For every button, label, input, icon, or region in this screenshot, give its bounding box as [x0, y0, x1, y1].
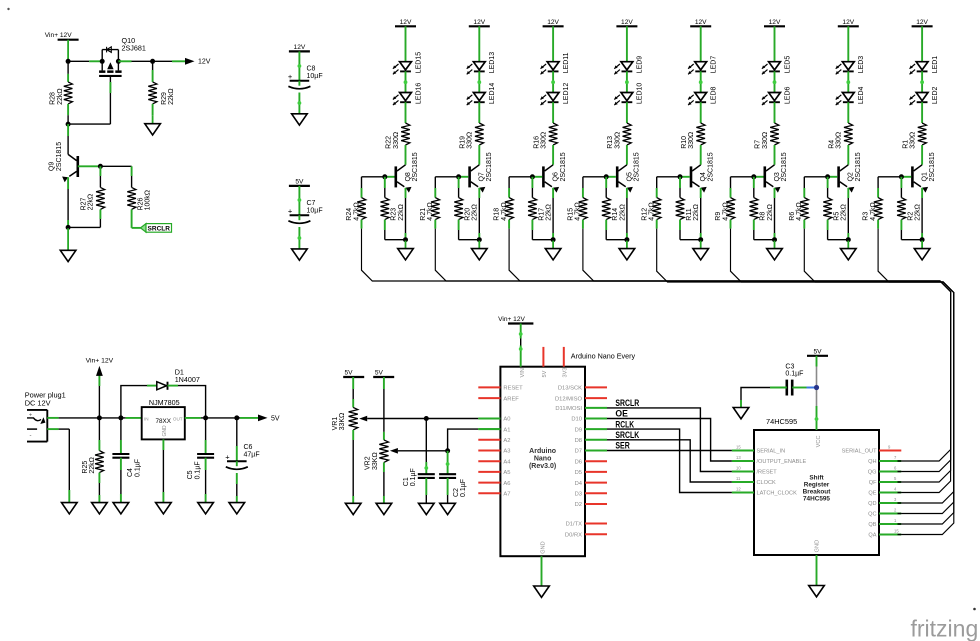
svg-text:Q7: Q7	[479, 172, 486, 181]
wire	[552, 102, 554, 123]
wire	[206, 417, 237, 419]
wire	[447, 478, 449, 503]
LED LED12	[541, 83, 570, 106]
dot	[7, 8, 9, 10]
svg-text:22kΩ: 22kΩ	[841, 204, 848, 221]
svg-text:+: +	[288, 206, 293, 215]
ground	[841, 241, 857, 260]
resistor R23	[381, 198, 405, 221]
svg-text:22kΩ: 22kΩ	[472, 204, 479, 221]
svg-text:LED15: LED15	[415, 52, 422, 74]
resistor R21	[420, 198, 440, 221]
wire	[508, 177, 510, 198]
svg-text:12V: 12V	[400, 19, 412, 26]
pin D7	[575, 449, 607, 455]
power 12V col1	[395, 19, 416, 27]
wire	[804, 229, 954, 524]
ground	[419, 503, 435, 514]
wire	[731, 176, 764, 178]
svg-text:33KΩ: 33KΩ	[339, 413, 346, 431]
wire	[877, 220, 879, 229]
diode D1	[157, 367, 200, 390]
wire	[68, 77, 110, 124]
svg-text:C8: C8	[307, 66, 316, 73]
node	[920, 237, 925, 242]
ground	[809, 586, 825, 597]
resistor R27	[81, 187, 105, 210]
power 5V	[343, 370, 364, 378]
svg-text:Vin+ 12V: Vin+ 12V	[498, 316, 525, 323]
svg-text:47µF: 47µF	[244, 451, 260, 458]
net label RCLK	[615, 419, 634, 430]
svg-text:78XX: 78XX	[155, 418, 171, 425]
pin D11/MOSI	[555, 406, 607, 412]
wire	[67, 124, 69, 154]
svg-text:2SC1815: 2SC1815	[56, 142, 63, 171]
regulator NJM7805	[142, 398, 185, 439]
svg-text:GND: GND	[815, 540, 821, 552]
svg-text:74HC595: 74HC595	[803, 496, 830, 503]
node	[150, 59, 155, 64]
wire	[700, 188, 702, 240]
svg-text:330Ω: 330Ω	[910, 132, 917, 149]
node	[477, 237, 482, 242]
node	[604, 174, 609, 179]
svg-text:LED10: LED10	[637, 83, 644, 105]
wire	[384, 177, 386, 198]
wire	[679, 177, 681, 198]
svg-text:SRCLR: SRCLR	[615, 398, 639, 409]
IC U-Arduino Nano (Rev3.0)	[500, 352, 635, 557]
svg-text:SERIAL_OUT: SERIAL_OUT	[842, 449, 877, 455]
power 5V	[807, 348, 828, 356]
svg-text:R21: R21	[420, 208, 427, 221]
svg-text:VIN: VIN	[520, 368, 526, 377]
svg-text:2SC1815: 2SC1815	[560, 152, 567, 181]
wire	[803, 177, 805, 198]
node	[551, 237, 556, 242]
svg-text:5V: 5V	[813, 348, 822, 355]
svg-text:10µF: 10µF	[307, 207, 323, 214]
node	[98, 164, 103, 169]
svg-text:2SC1815: 2SC1815	[855, 152, 862, 181]
ground	[534, 586, 550, 597]
svg-text:A4: A4	[503, 459, 511, 465]
LED LED5	[762, 56, 791, 75]
wire	[626, 188, 628, 240]
wire	[509, 176, 542, 178]
pin A7	[478, 492, 510, 498]
svg-text:330Ω: 330Ω	[393, 132, 400, 149]
net label OE	[615, 409, 628, 420]
transistor Q6	[542, 152, 567, 192]
wire	[541, 556, 543, 586]
wire	[878, 176, 911, 178]
svg-text:2SC1815: 2SC1815	[707, 152, 714, 181]
svg-text:R4: R4	[829, 140, 836, 149]
pin RESET	[478, 386, 523, 392]
svg-text:SRCLK: SRCLK	[615, 430, 639, 441]
svg-text:330Ω: 330Ω	[762, 132, 769, 149]
svg-text:R12: R12	[641, 208, 648, 221]
wire	[120, 458, 122, 503]
wire	[298, 186, 302, 215]
svg-text:0.1µF: 0.1µF	[410, 468, 417, 486]
ground	[440, 503, 456, 514]
wire	[236, 418, 238, 461]
ground	[345, 503, 361, 514]
svg-text:4.7kΩ: 4.7kΩ	[427, 202, 434, 220]
svg-text:4.7kΩ: 4.7kΩ	[870, 202, 877, 220]
wire	[774, 102, 776, 123]
svg-text:22kΩ: 22kΩ	[88, 194, 95, 211]
wire	[774, 145, 776, 165]
wire	[478, 102, 480, 123]
svg-text:D10: D10	[571, 417, 582, 423]
svg-text:Q8: Q8	[405, 172, 412, 181]
LED LED11	[541, 52, 570, 74]
wire	[582, 220, 584, 229]
svg-text:GND: GND	[162, 425, 168, 437]
power plug1 label	[25, 391, 66, 408]
ground	[62, 503, 78, 514]
LED LED10	[614, 83, 643, 106]
svg-text:LED6: LED6	[784, 86, 791, 104]
potentiometer VR1	[332, 407, 367, 430]
resistor R11	[676, 198, 700, 221]
svg-text:Q9: Q9	[49, 162, 56, 171]
pin QA	[868, 528, 901, 538]
svg-text:C6: C6	[244, 444, 253, 451]
wire	[236, 473, 238, 503]
wire	[78, 165, 132, 167]
wire	[730, 177, 732, 198]
wire	[656, 220, 658, 229]
svg-text:R9: R9	[715, 212, 722, 221]
svg-text:12V: 12V	[695, 19, 707, 26]
wire	[152, 104, 154, 116]
ground	[229, 503, 245, 514]
svg-text:C5: C5	[187, 470, 194, 479]
wire	[774, 26, 776, 61]
potentiometer VR2	[365, 440, 398, 470]
power 12V arrow	[185, 58, 211, 66]
LED LED6	[762, 86, 791, 105]
wire	[532, 220, 553, 240]
wire	[152, 61, 154, 82]
wire	[383, 377, 385, 440]
svg-text:D6: D6	[575, 459, 582, 465]
power 5V	[289, 178, 310, 186]
svg-text:12V: 12V	[916, 19, 928, 26]
capacitor C3	[785, 363, 803, 395]
power Vin+ 12V arrow	[86, 358, 114, 376]
svg-text:A5: A5	[503, 470, 510, 476]
svg-text:Vin+ 12V: Vin+ 12V	[45, 32, 72, 39]
svg-text:LED16: LED16	[415, 83, 422, 105]
resistor R10	[681, 123, 705, 149]
wire	[900, 177, 902, 198]
wire	[699, 71, 703, 92]
resistor R3	[863, 198, 883, 221]
pin SERIAL_OUT	[842, 444, 902, 454]
wire	[99, 417, 121, 419]
wire	[920, 71, 924, 92]
svg-text:100kΩ: 100kΩ	[145, 190, 152, 210]
svg-text:Q3: Q3	[774, 172, 781, 181]
wire	[131, 166, 133, 187]
svg-text:Arduino: Arduino	[529, 448, 556, 455]
pin /OUTPUT_ENABLE	[732, 455, 807, 465]
power 12V col6	[764, 19, 785, 27]
resistor R25	[82, 451, 104, 474]
wire	[921, 26, 923, 61]
wire	[847, 26, 849, 61]
resistor R17	[528, 198, 552, 221]
svg-text:R7: R7	[755, 140, 762, 149]
wire	[605, 177, 607, 198]
node	[118, 415, 123, 420]
wire	[741, 388, 787, 408]
svg-text:C1: C1	[403, 477, 410, 486]
svg-text:Vin+ 12V: Vin+ 12V	[86, 358, 114, 365]
svg-text:(Rev3.0): (Rev3.0)	[529, 463, 556, 470]
svg-text:4.7kΩ: 4.7kΩ	[722, 202, 729, 220]
wire	[67, 177, 69, 227]
svg-text:12V: 12V	[294, 44, 306, 51]
svg-text:12V: 12V	[769, 19, 781, 26]
svg-text:R18: R18	[494, 208, 501, 221]
fritzing logo	[911, 616, 979, 641]
wire	[478, 26, 480, 61]
wire	[153, 60, 186, 62]
dot	[973, 608, 976, 611]
wire	[816, 555, 818, 586]
pin QF	[869, 476, 901, 486]
wire RCLK	[607, 429, 732, 492]
wire	[434, 220, 436, 229]
pin A0	[478, 417, 510, 423]
svg-text:3V3: 3V3	[562, 368, 568, 378]
svg-text:13: 13	[736, 455, 741, 460]
node	[825, 174, 830, 179]
svg-text:DC 12V: DC 12V	[25, 398, 51, 407]
pin A6	[478, 481, 510, 487]
wire	[298, 93, 302, 114]
wire	[67, 104, 69, 124]
svg-text:22kΩ: 22kΩ	[915, 204, 922, 221]
svg-text:R20: R20	[465, 208, 472, 221]
svg-text:2SC1815: 2SC1815	[634, 152, 641, 181]
svg-text:D8: D8	[575, 438, 582, 444]
LED LED2	[910, 86, 939, 105]
svg-text:D3: D3	[575, 492, 582, 498]
svg-text:D12/MISO: D12/MISO	[555, 396, 583, 402]
wire	[405, 188, 407, 240]
pin QC	[868, 507, 901, 517]
svg-text:LED2: LED2	[932, 86, 939, 104]
wire	[827, 177, 829, 198]
svg-text:4.7kΩ: 4.7kΩ	[353, 202, 360, 220]
svg-text:R14: R14	[612, 208, 619, 221]
svg-text:330Ω: 330Ω	[688, 132, 695, 149]
wire	[298, 51, 302, 80]
power 12V col4	[616, 19, 637, 27]
ground	[376, 503, 392, 514]
net label SRCLR	[615, 398, 639, 409]
resistor R22	[386, 123, 410, 149]
wire	[121, 417, 142, 419]
svg-text:D0/RX: D0/RX	[565, 532, 582, 538]
svg-text:LED9: LED9	[637, 56, 644, 74]
ground	[733, 408, 749, 419]
ground	[292, 114, 308, 125]
node	[234, 415, 239, 420]
svg-text:OUT: OUT	[173, 417, 183, 422]
svg-text:OE: OE	[615, 409, 628, 420]
svg-text:4.7kΩ: 4.7kΩ	[575, 202, 582, 220]
wire	[67, 61, 69, 82]
wire	[552, 145, 554, 165]
svg-text:22kΩ: 22kΩ	[693, 204, 700, 221]
wire	[901, 220, 922, 240]
resistor R24	[346, 198, 366, 221]
wire	[362, 176, 395, 178]
svg-text:D9: D9	[575, 427, 582, 433]
capacitor C4	[112, 454, 141, 477]
LED LED7	[688, 56, 717, 75]
resistor R1	[902, 123, 926, 149]
wire	[205, 418, 207, 454]
resistor R20	[454, 198, 478, 221]
ground	[398, 241, 414, 260]
svg-text:LED1: LED1	[932, 56, 939, 74]
resistor R26	[127, 187, 151, 210]
svg-text:4.7kΩ: 4.7kΩ	[649, 202, 656, 220]
wire	[877, 177, 879, 198]
wire	[657, 229, 954, 503]
transistor Q7	[468, 152, 493, 192]
svg-text:QG: QG	[868, 470, 877, 476]
svg-text:+: +	[225, 452, 230, 461]
svg-text:GND: GND	[541, 541, 547, 553]
svg-text:5V: 5V	[271, 415, 280, 422]
svg-text:Q2: Q2	[848, 172, 855, 181]
transistor Q2	[837, 152, 862, 192]
wire	[700, 102, 702, 123]
svg-text:NJM7805: NJM7805	[149, 398, 180, 407]
wire	[519, 324, 523, 367]
wire	[478, 188, 480, 240]
svg-text:-: -	[30, 433, 32, 439]
node	[456, 174, 461, 179]
node	[66, 59, 71, 64]
wire	[477, 71, 481, 92]
wire OE	[607, 419, 732, 462]
wire	[367, 418, 500, 420]
wire	[361, 220, 363, 229]
resistor R13	[607, 123, 631, 149]
wire	[803, 220, 805, 229]
capacitor C7	[288, 200, 323, 223]
svg-text:QA: QA	[868, 533, 876, 539]
svg-text:D13/SCK: D13/SCK	[558, 386, 582, 392]
pin D2	[575, 502, 607, 508]
node	[382, 174, 387, 179]
node	[899, 174, 904, 179]
wire	[404, 71, 408, 92]
svg-text:10: 10	[736, 465, 741, 470]
wire	[552, 26, 554, 61]
svg-text:22kΩ: 22kΩ	[168, 88, 175, 105]
node	[624, 237, 629, 242]
LED LED8	[688, 86, 717, 105]
svg-text:Arduino Nano Every: Arduino Nano Every	[571, 352, 636, 361]
svg-text:R23: R23	[391, 208, 398, 221]
svg-text:QE: QE	[868, 491, 876, 497]
LED LED14	[467, 83, 496, 106]
resistor R18	[494, 198, 514, 221]
svg-text:R3: R3	[863, 212, 870, 221]
power 12V col8	[912, 19, 933, 27]
pin D6	[575, 459, 607, 465]
svg-text:+: +	[29, 413, 32, 419]
wire	[478, 145, 480, 165]
node	[66, 122, 71, 127]
wire	[773, 71, 777, 92]
wire	[847, 145, 849, 165]
svg-text:+: +	[288, 72, 293, 81]
node	[751, 174, 756, 179]
svg-text:22kΩ: 22kΩ	[767, 204, 774, 221]
wire	[846, 71, 850, 92]
transistor Q1	[911, 152, 936, 192]
svg-text:D2: D2	[575, 502, 582, 508]
node	[814, 385, 819, 390]
node	[846, 237, 851, 242]
ground	[145, 116, 161, 135]
ground	[693, 241, 709, 260]
wire	[398, 429, 501, 451]
svg-text:R17: R17	[538, 208, 545, 221]
svg-text:Q1: Q1	[922, 172, 929, 181]
power 5V	[373, 370, 394, 378]
ground	[198, 503, 214, 514]
svg-text:CLOCK: CLOCK	[757, 480, 777, 486]
capacitor C6	[225, 444, 259, 469]
svg-text:4.7kΩ: 4.7kΩ	[501, 202, 508, 220]
transistor Q3	[764, 152, 789, 192]
wire	[626, 145, 628, 165]
svg-text:Q5: Q5	[626, 172, 633, 181]
svg-text:5V: 5V	[344, 370, 353, 377]
wire	[162, 439, 164, 502]
pin D3	[575, 492, 607, 498]
svg-text:QD: QD	[868, 501, 876, 507]
svg-text:LED8: LED8	[711, 86, 718, 104]
node	[678, 174, 683, 179]
wire	[47, 429, 69, 503]
resistor R28	[50, 82, 73, 105]
ground	[619, 241, 635, 260]
svg-text:22kΩ: 22kΩ	[546, 204, 553, 221]
wire	[921, 102, 923, 123]
wire	[606, 220, 627, 240]
wire	[352, 377, 354, 407]
svg-text:LED11: LED11	[563, 52, 570, 73]
resistor R15	[568, 198, 588, 221]
wire	[168, 386, 206, 418]
